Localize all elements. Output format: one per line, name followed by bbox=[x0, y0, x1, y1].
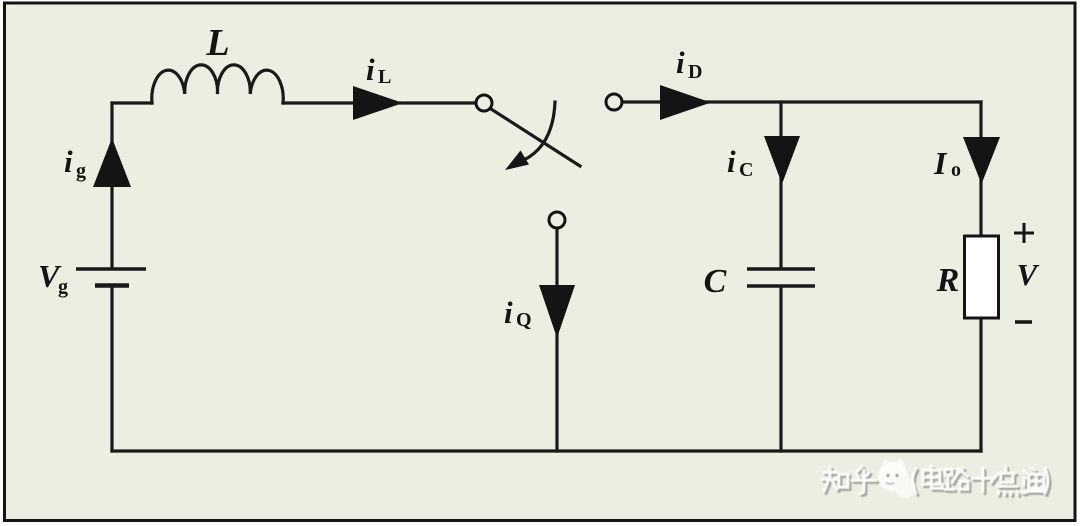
svg-text:i: i bbox=[64, 144, 73, 179]
svg-text:g: g bbox=[58, 276, 68, 298]
wire resistor branch lower bbox=[979, 318, 982, 451]
plus sign bbox=[1014, 223, 1034, 243]
current arrow iQ (down) bbox=[539, 285, 575, 338]
wire inductor to switch bbox=[283, 101, 475, 104]
current arrow iC (down) bbox=[764, 136, 800, 184]
svg-text:o: o bbox=[951, 159, 961, 181]
svg-text:i: i bbox=[676, 45, 685, 80]
switch arc arrowhead bbox=[505, 151, 529, 171]
wire resistor branch upper bbox=[979, 102, 982, 236]
char 电 bbox=[925, 469, 945, 491]
current arrow iL bbox=[353, 86, 403, 120]
switch motion arc bbox=[517, 102, 555, 163]
current arrow iD bbox=[660, 85, 711, 120]
watermark 知乎 logo (电路十点通) bbox=[824, 458, 1050, 499]
svg-text:C: C bbox=[739, 159, 753, 181]
svg-text:R: R bbox=[936, 262, 960, 299]
char ( bbox=[915, 471, 919, 496]
char 通 bbox=[1023, 470, 1047, 496]
current arrow Io (down) bbox=[963, 137, 1000, 184]
char 知 bbox=[824, 470, 850, 494]
svg-text:V: V bbox=[1017, 257, 1040, 292]
svg-text:D: D bbox=[688, 61, 702, 83]
capacitor C bottom plate bbox=[747, 284, 815, 288]
wire bottom rail bbox=[112, 449, 981, 452]
wire diode-side top bbox=[623, 100, 981, 103]
switch terminal circle bottom bbox=[549, 212, 565, 228]
wire capacitor branch lower bbox=[779, 287, 782, 451]
char ) bbox=[1047, 471, 1050, 496]
switch blade bbox=[491, 109, 580, 166]
char 十 bbox=[974, 471, 1000, 494]
resistor R body bbox=[965, 236, 999, 318]
wire switch common branch bbox=[555, 229, 558, 451]
switch terminal circle right bbox=[606, 94, 622, 110]
char 点 bbox=[1000, 469, 1020, 497]
char 路 bbox=[947, 471, 970, 492]
battery Vg long plate bbox=[76, 267, 146, 271]
svg-text:i: i bbox=[727, 144, 736, 179]
char 乎 bbox=[854, 469, 878, 496]
svg-text:I: I bbox=[933, 145, 948, 181]
wire top-left horizontal bbox=[112, 101, 152, 104]
current arrow ig (up) bbox=[93, 138, 131, 187]
logo white head bbox=[878, 458, 916, 499]
battery Vg short plate bbox=[95, 283, 129, 288]
wire capacitor branch upper bbox=[779, 102, 782, 268]
minus sign bbox=[1015, 320, 1032, 324]
svg-text:i: i bbox=[504, 295, 513, 330]
wire left branch lower bbox=[110, 286, 113, 451]
svg-text:L: L bbox=[205, 22, 229, 64]
svg-text:L: L bbox=[378, 66, 391, 88]
svg-text:Q: Q bbox=[516, 309, 532, 331]
capacitor C top plate bbox=[747, 267, 815, 271]
svg-text:C: C bbox=[704, 263, 727, 300]
inductor L coil bbox=[152, 65, 283, 103]
svg-text:i: i bbox=[366, 52, 375, 87]
wire left branch upper bbox=[110, 103, 113, 268]
svg-text:g: g bbox=[76, 160, 86, 182]
switch terminal circle left bbox=[476, 95, 492, 111]
